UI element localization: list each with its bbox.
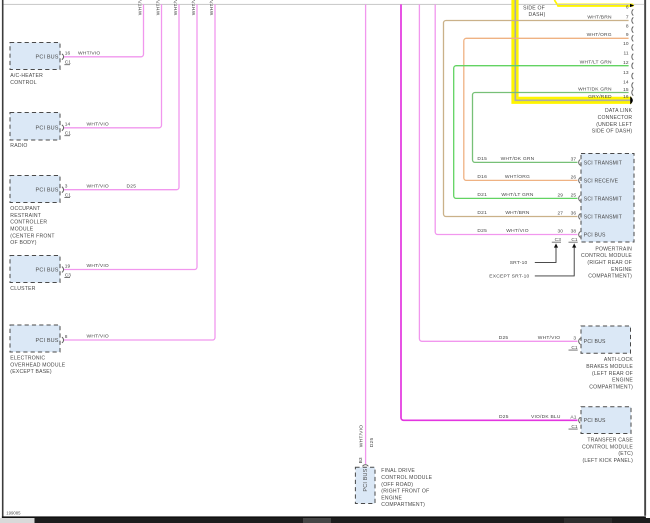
svg-text:WHT/DK GRN: WHT/DK GRN	[578, 86, 612, 92]
module box: A/C-HEATER CONTROL (PCI BUS)	[10, 43, 60, 70]
svg-text:TRANSFER CASE: TRANSFER CASE	[587, 438, 633, 444]
svg-text:WHT/VIO: WHT/VIO	[359, 425, 365, 447]
svg-text:CLUSTER: CLUSTER	[10, 286, 35, 292]
svg-text:16: 16	[65, 51, 71, 57]
svg-text:27: 27	[557, 211, 563, 217]
svg-text:PCI BUS: PCI BUS	[363, 468, 369, 491]
svg-text:B3: B3	[358, 457, 364, 463]
svg-text:WHT/VIO: WHT/VIO	[155, 0, 161, 15]
svg-text:PCI BUS: PCI BUS	[584, 339, 606, 345]
svg-text:WHT/VIO: WHT/VIO	[87, 122, 109, 128]
svg-text:FINAL DRIVE: FINAL DRIVE	[381, 468, 415, 474]
svg-text:EXCEPT SRT-10: EXCEPT SRT-10	[489, 274, 529, 280]
svg-text:POWERTRAIN: POWERTRAIN	[595, 246, 632, 252]
top page border	[3, 4, 644, 5]
svg-text:MODULE: MODULE	[10, 227, 33, 233]
wire WHT/VIO vertical+run to PCM PCI BUS pin	[435, 4, 577, 234]
svg-text:ENGINE: ENGINE	[612, 378, 633, 384]
svg-text:WHT/VIO: WHT/VIO	[87, 183, 109, 189]
svg-text:ANTI-LOCK: ANTI-LOCK	[604, 357, 634, 363]
EXCEPT SRT-10 arrow to C1	[535, 247, 574, 276]
svg-text:COMPARTMENT): COMPARTMENT)	[381, 502, 425, 508]
svg-text:ELECTRONIC: ELECTRONIC	[10, 356, 45, 362]
svg-text:37: 37	[571, 156, 577, 162]
svg-text:WHT/DK GRN: WHT/DK GRN	[501, 156, 535, 162]
svg-text:6: 6	[626, 5, 629, 11]
svg-text:ENGINE: ENGINE	[611, 267, 632, 273]
svg-text:25: 25	[571, 192, 577, 198]
svg-text:D25: D25	[499, 335, 509, 341]
svg-text:SCI TRANSMIT: SCI TRANSMIT	[584, 196, 622, 202]
svg-text:VIO/DK BLU: VIO/DK BLU	[531, 414, 561, 420]
GRY/RED wire core	[515, 0, 630, 100]
wire WHT/ORG: DLC pin 9 to PCM SCI RECEIVE 26	[464, 38, 629, 180]
wire WHT/VIO from A/C-HEATER up to top edge	[64, 4, 144, 56]
svg-text:16: 16	[623, 94, 629, 100]
svg-text:3: 3	[65, 184, 68, 190]
svg-text:(EXCEPT BASE): (EXCEPT BASE)	[10, 369, 52, 375]
right page border	[644, 0, 646, 516]
svg-text:199085: 199085	[6, 511, 21, 516]
black terminal bracket at DLC pin 16	[630, 96, 633, 104]
svg-text:PCI BUS: PCI BUS	[36, 126, 59, 132]
svg-text:26: 26	[571, 174, 577, 180]
svg-text:RADIO: RADIO	[10, 143, 27, 149]
wire WHT/VIO vertical to FINAL DRIVE module	[365, 4, 367, 464]
svg-text:WHT/VIO: WHT/VIO	[87, 334, 109, 340]
svg-text:12: 12	[623, 60, 629, 66]
svg-text:29: 29	[557, 192, 563, 198]
svg-text:8: 8	[65, 334, 68, 340]
wire WHT/BRN: DLC pin 7 to PCM SCI TRANSMIT 36	[444, 21, 629, 217]
svg-text:CONTROLLER: CONTROLLER	[10, 220, 47, 226]
module box: OCCUPANT RESTRAINT CONTROLLER MODULE (CENTER FRONT OF BODY) (PCI BUS)	[10, 176, 60, 203]
svg-text:14: 14	[65, 122, 71, 128]
svg-text:19: 19	[65, 263, 71, 269]
svg-text:D21: D21	[477, 210, 487, 216]
svg-text:OF BODY): OF BODY)	[10, 240, 36, 246]
svg-text:WHT/VIO: WHT/VIO	[191, 0, 197, 15]
wire WHT/VIO vertical+run to ANTI-LOCK BRAKES module	[419, 4, 577, 341]
svg-text:36: 36	[571, 211, 577, 217]
svg-text:COMPARTMENT): COMPARTMENT)	[589, 384, 633, 390]
highlighted GRY/RED wire: vertical from top + run to DLC pin 16	[515, 0, 632, 100]
svg-text:(OFF ROAD): (OFF ROAD)	[381, 482, 413, 488]
svg-text:WHT/BRN: WHT/BRN	[505, 210, 530, 216]
svg-text:PCI BUS: PCI BUS	[36, 267, 59, 273]
svg-text:SCI RECEIVE: SCI RECEIVE	[584, 178, 619, 184]
svg-text:CONTROL MODULE: CONTROL MODULE	[381, 475, 432, 481]
svg-text:10: 10	[623, 41, 629, 47]
svg-text:(LEFT REAR OF: (LEFT REAR OF	[592, 371, 633, 377]
svg-text:38: 38	[571, 229, 577, 235]
svg-text:ENGINE: ENGINE	[381, 495, 402, 501]
svg-text:WHT/VIO: WHT/VIO	[137, 0, 143, 15]
bottom taskbar	[35, 518, 650, 523]
pin bracket of FINAL DRIVE	[363, 465, 369, 467]
wire WHT/DK GRN: DLC pin 15 to PCM SCI TRANSMIT 37	[473, 93, 629, 163]
svg-text:7: 7	[626, 14, 629, 20]
svg-text:9: 9	[626, 32, 629, 38]
svg-text:D16: D16	[477, 174, 487, 180]
svg-text:30: 30	[557, 229, 563, 235]
svg-text:WHT/VIO: WHT/VIO	[173, 0, 179, 15]
SRT-10 arrow to C3	[535, 247, 556, 262]
svg-text:WHT/LT GRN: WHT/LT GRN	[580, 60, 612, 66]
svg-text:A/C-HEATER: A/C-HEATER	[10, 73, 43, 79]
svg-text:PCI BUS: PCI BUS	[36, 338, 59, 344]
module box: RADIO (PCI BUS)	[10, 113, 60, 141]
svg-text:OCCUPANT: OCCUPANT	[10, 206, 40, 212]
wire VIO/DK BLU vertical+run to TRANSFER CASE module	[401, 4, 578, 420]
svg-text:14: 14	[623, 79, 629, 85]
module box: FINAL DRIVE CONTROL MODULE	[355, 467, 375, 503]
module box: POWERTRAIN CONTROL MODULE	[581, 154, 634, 243]
svg-text:WHT/ORG: WHT/ORG	[587, 32, 612, 38]
svg-text:15: 15	[623, 87, 629, 93]
svg-text:CONNECTOR: CONNECTOR	[598, 115, 633, 121]
svg-text:PCI BUS: PCI BUS	[584, 232, 606, 238]
svg-text:SRT-10: SRT-10	[510, 260, 528, 266]
svg-text:GRY/RED: GRY/RED	[588, 94, 612, 100]
svg-text:D25: D25	[477, 228, 487, 234]
svg-text:(CENTER FRONT: (CENTER FRONT	[10, 233, 54, 239]
module box: ANTI-LOCK BRAKES MODULE	[581, 326, 631, 353]
pin bracket of RADIO	[62, 125, 64, 131]
svg-text:SCI TRANSMIT: SCI TRANSMIT	[584, 214, 622, 220]
svg-text:(RIGHT REAR OF: (RIGHT REAR OF	[587, 260, 632, 266]
bottom page border	[2, 516, 646, 518]
svg-text:CONTROL MODULE: CONTROL MODULE	[581, 253, 632, 259]
svg-text:WHT/VIO: WHT/VIO	[209, 0, 215, 15]
svg-text:8: 8	[626, 23, 629, 29]
wire WHT/VIO from RADIO up to top edge	[64, 4, 162, 127]
pin bracket of OCCUPANT RESTRAINT CONTROLLER MODULE (CENTER FRONT OF BODY)	[62, 187, 64, 193]
highlighted GRY/RED wire branch: top edge to DLC pin 6	[559, 3, 633, 6]
wire WHT/VIO from OCCUPANT up to top edge	[64, 4, 179, 189]
pin bracket of CLUSTER	[62, 267, 64, 273]
svg-text:13: 13	[623, 70, 629, 76]
svg-text:WHT/ORG: WHT/ORG	[505, 174, 530, 180]
svg-text:SIDE OF DASH): SIDE OF DASH)	[592, 129, 633, 135]
bottom bar left light segment	[0, 518, 35, 523]
svg-text:DASH): DASH)	[529, 12, 546, 18]
svg-text:COMPARTMENT): COMPARTMENT)	[588, 274, 632, 280]
svg-text:(RIGHT FRONT OF: (RIGHT FRONT OF	[381, 489, 429, 495]
svg-text:CONTROL: CONTROL	[10, 80, 36, 86]
module box: CLUSTER (PCI BUS)	[10, 256, 60, 283]
svg-text:11: 11	[624, 51, 629, 57]
svg-text:BRAKES MODULE: BRAKES MODULE	[586, 364, 633, 370]
svg-text:OVERHEAD MODULE: OVERHEAD MODULE	[10, 362, 65, 368]
gray core of pin-6 branch	[558, 3, 631, 6]
svg-text:SCI TRANSMIT: SCI TRANSMIT	[584, 160, 622, 166]
wire WHT/LT GRN: DLC pin 12 to PCM SCI TRANSMIT 25	[454, 66, 629, 199]
svg-text:WHT/VIO: WHT/VIO	[538, 335, 560, 341]
svg-text:WHT/BRN: WHT/BRN	[587, 14, 612, 20]
module box: ELECTRONIC OVERHEAD MODULE (EXCEPT BASE) (PCI BUS)	[10, 325, 60, 352]
svg-text:RESTRAINT: RESTRAINT	[10, 213, 41, 219]
svg-text:PCI BUS: PCI BUS	[36, 188, 59, 194]
svg-text:D15: D15	[477, 156, 487, 162]
svg-text:A1: A1	[570, 414, 576, 420]
svg-text:WHT/VIO: WHT/VIO	[506, 228, 528, 234]
svg-text:WHT/VIO: WHT/VIO	[78, 51, 100, 57]
svg-text:PCI BUS: PCI BUS	[584, 418, 606, 424]
svg-text:D25: D25	[369, 438, 375, 448]
pin bracket of ELECTRONIC OVERHEAD MODULE (EXCEPT BASE)	[62, 337, 64, 343]
svg-text:DATA LINK: DATA LINK	[605, 108, 633, 114]
svg-text:PCI BUS: PCI BUS	[36, 55, 59, 61]
svg-text:WHT/LT GRN: WHT/LT GRN	[501, 192, 533, 198]
black terminal arrow at DLC pin 6	[630, 4, 634, 7]
svg-text:(LEFT KICK PANEL): (LEFT KICK PANEL)	[582, 458, 633, 464]
svg-text:D21: D21	[477, 192, 487, 198]
pin bracket of A/C-HEATER CONTROL	[62, 54, 64, 60]
module box: TRANSFER CASE CONTROL MODULE	[581, 407, 631, 434]
wire WHT/VIO from ELECTRONIC up to top edge	[64, 4, 215, 340]
svg-text:CONTROL MODULE: CONTROL MODULE	[582, 444, 633, 450]
svg-text:(ETC): (ETC)	[618, 451, 633, 457]
wire WHT/VIO from CLUSTER up to top edge	[64, 4, 197, 269]
svg-text:SIDE OF: SIDE OF	[523, 5, 545, 11]
svg-text:D25: D25	[127, 183, 137, 189]
svg-text:3: 3	[573, 335, 576, 341]
svg-text:D25: D25	[499, 414, 509, 420]
svg-text:(UNDER LEFT: (UNDER LEFT	[596, 122, 632, 128]
svg-text:WHT/VIO: WHT/VIO	[87, 263, 109, 269]
left page border	[2, 0, 4, 518]
